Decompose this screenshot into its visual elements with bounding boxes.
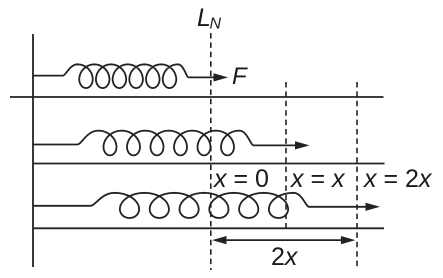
spring 3 (stretched by 2x)	[33, 193, 309, 218]
svg-text:F: F	[232, 63, 248, 90]
svg-text:2x: 2x	[271, 243, 299, 271]
svg-text:x = x: x = x	[290, 165, 346, 193]
dimension arrow 2x (double headed)	[225, 239, 343, 241]
spring 2 (stretched by x)	[33, 131, 254, 156]
surface line B (below second spring)	[33, 163, 385, 165]
wall (vertical support line)	[32, 34, 34, 267]
force arrow F on spring 1	[189, 76, 216, 78]
spring 1 (natural length)	[33, 64, 189, 88]
dashed reference line at x = x	[285, 82, 287, 228]
force arrow on spring 3	[309, 206, 368, 208]
svg-text:x = 0: x = 0	[213, 165, 269, 193]
svg-text:N: N	[210, 16, 222, 33]
surface line A (below first spring)	[10, 96, 384, 98]
surface line C (below third spring)	[33, 227, 384, 229]
force arrow on spring 2	[254, 144, 298, 146]
svg-text:x = 2x: x = 2x	[363, 165, 433, 193]
dashed reference line at x = 2x	[356, 82, 358, 270]
dashed reference line at natural length L_N (x = 0)	[210, 33, 212, 270]
